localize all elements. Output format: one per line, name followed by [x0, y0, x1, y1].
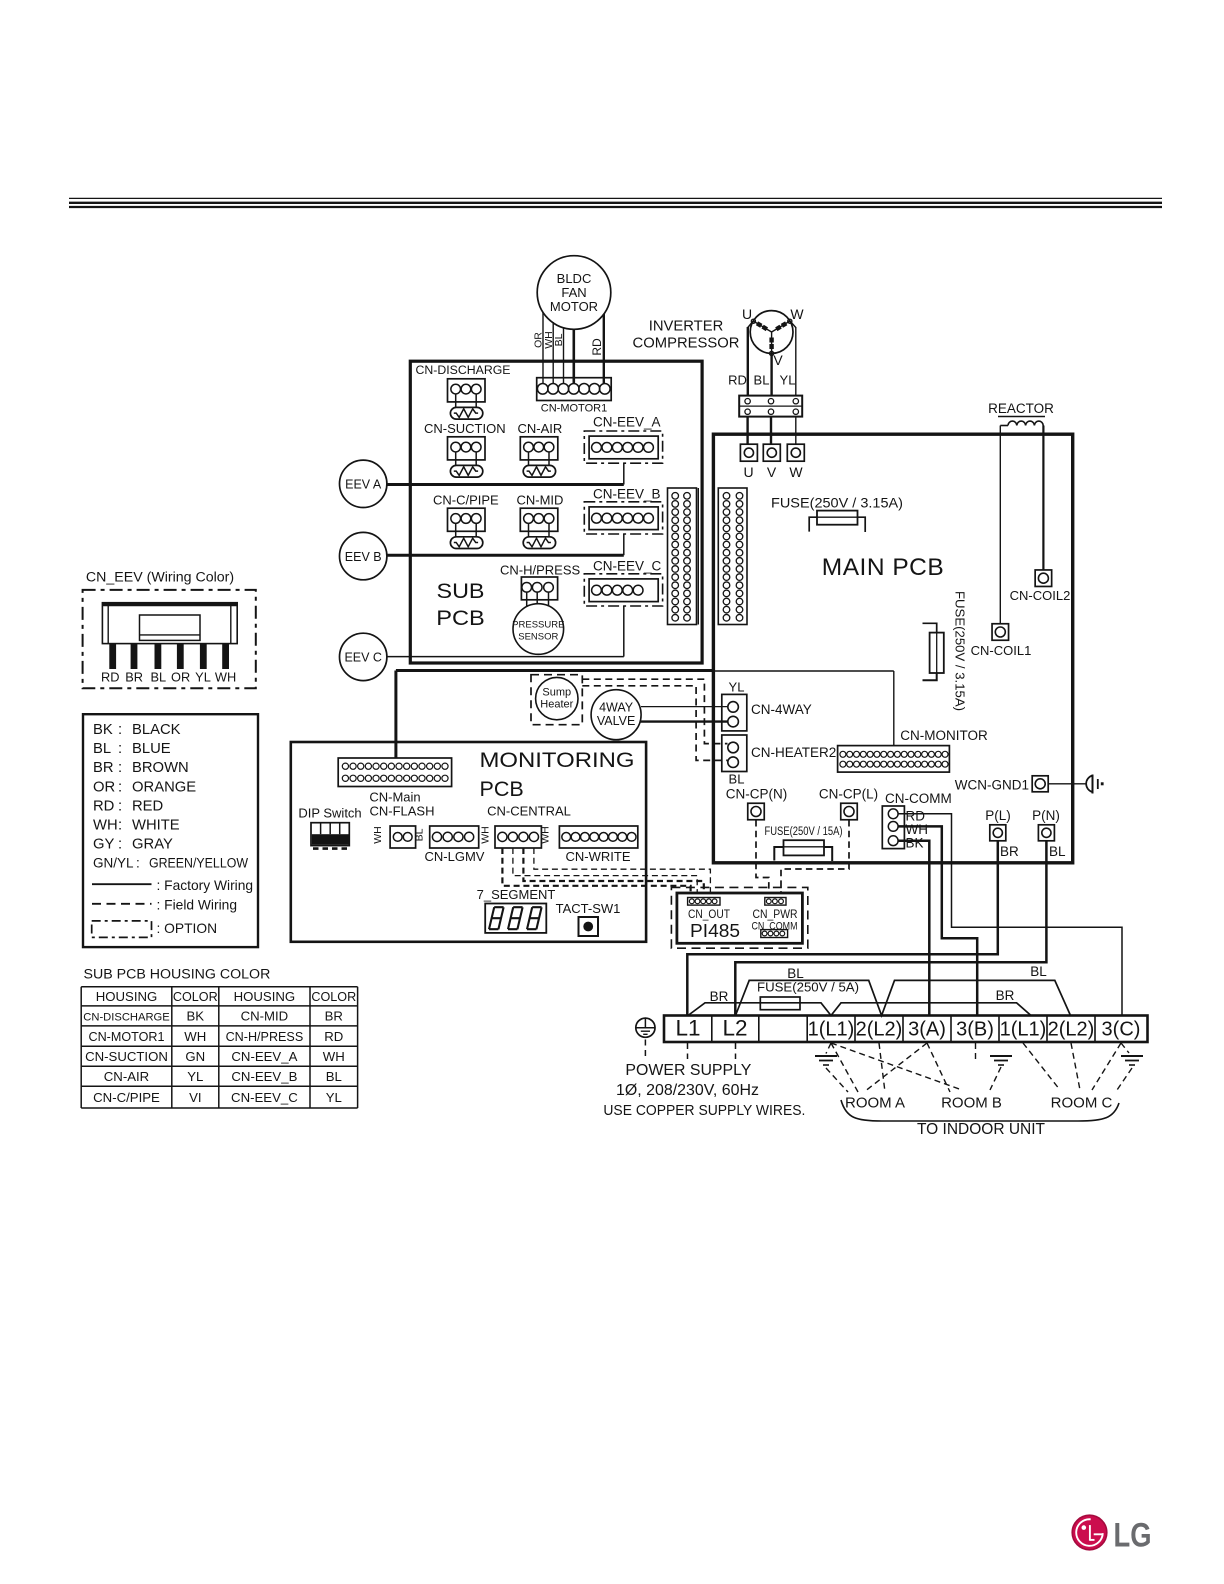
svg-text:ROOM A: ROOM A [845, 1095, 905, 1112]
compressor labels U W V [742, 306, 804, 368]
svg-text:CN-DISCHARGE: CN-DISCHARGE [416, 363, 511, 377]
svg-text:CN-LGMV: CN-LGMV [425, 849, 485, 864]
svg-text::: : [118, 818, 122, 834]
legend field wiring [92, 898, 237, 913]
svg-text:GN/YL: GN/YL [93, 856, 134, 871]
wire CN-COMM BK to terminal 3(A) [898, 841, 929, 1016]
svg-text:BK: BK [93, 722, 113, 738]
compressor wire V [770, 353, 772, 397]
label INVERTER COMPRESSOR [633, 319, 740, 352]
EEV A valve [340, 460, 387, 507]
svg-text:OR: OR [93, 779, 115, 795]
svg-text:MAIN PCB: MAIN PCB [822, 554, 944, 581]
svg-text:: Factory Wiring: : Factory Wiring [157, 878, 254, 893]
svg-text:HOUSING: HOUSING [234, 989, 296, 1004]
svg-text:RED: RED [132, 798, 163, 814]
terminal block strip [664, 1016, 1148, 1043]
svg-text:COLOR: COLOR [311, 990, 356, 1004]
svg-text:CN-H/PRESS: CN-H/PRESS [500, 563, 581, 578]
svg-text:HOUSING: HOUSING [96, 989, 158, 1004]
svg-text:3(C): 3(C) [1102, 1019, 1141, 1041]
svg-text:ROOM C: ROOM C [1051, 1095, 1113, 1112]
svg-text:L1: L1 [675, 1016, 700, 1041]
connector CN-4WAY [722, 680, 812, 731]
svg-text:TACT-SW1: TACT-SW1 [556, 901, 621, 916]
svg-text:COLOR: COLOR [173, 990, 218, 1004]
svg-text:CN-CENTRAL: CN-CENTRAL [487, 804, 571, 819]
svg-text:RD: RD [728, 373, 747, 388]
MAIN PCB board outline [713, 434, 1072, 863]
svg-text:CN-SUCTION: CN-SUCTION [85, 1049, 168, 1064]
svg-text:BK: BK [906, 836, 924, 851]
svg-text:CN-EEV_B: CN-EEV_B [231, 1069, 297, 1084]
svg-text:TO INDOOR UNIT: TO INDOOR UNIT [917, 1121, 1046, 1138]
svg-text:COMPRESSOR: COMPRESSOR [633, 336, 740, 352]
connector CN_PWR [753, 898, 798, 922]
motor wire RD [603, 314, 605, 384]
connector CN-MID with thermistor [517, 493, 564, 508]
header block SUB PCB side [668, 488, 699, 625]
chassis ground symbol [1086, 775, 1103, 794]
power supply earth symbol [636, 1018, 655, 1037]
terminal W [787, 444, 804, 480]
svg-text:POWER SUPPLY: POWER SUPPLY [625, 1062, 751, 1079]
svg-text:Heater: Heater [540, 699, 573, 711]
svg-text:ROOM B: ROOM B [941, 1095, 1002, 1112]
svg-text:CN-EEV_B: CN-EEV_B [593, 487, 661, 502]
svg-text:CN-Main: CN-Main [369, 790, 420, 805]
svg-text:MONITORING: MONITORING [480, 748, 635, 772]
wire EEV A [387, 483, 624, 486]
PI485 module [671, 887, 807, 948]
svg-text:GY: GY [93, 837, 115, 853]
svg-text:CN-MOTOR1: CN-MOTOR1 [541, 403, 607, 415]
svg-text:FUSE(250V / 3.15A): FUSE(250V / 3.15A) [953, 591, 968, 711]
connector CN-C/PIPE with thermistor [433, 493, 499, 508]
svg-text:GRAY: GRAY [132, 837, 173, 853]
motor wire BL [563, 327, 565, 384]
motor wire WH [552, 322, 554, 384]
terminal U [740, 444, 757, 480]
svg-text:2(L2): 2(L2) [1048, 1019, 1095, 1041]
label MONITORING PCB [480, 748, 635, 801]
connector CN-SUCTION with thermistor [424, 421, 506, 436]
dashed wire sump heater to CN-HEATER2 pin1 [582, 679, 727, 743]
wire WCN-GND1 to chassis ground [1048, 783, 1086, 785]
svg-text:INVERTER: INVERTER [649, 319, 724, 335]
svg-text:YL: YL [187, 1069, 203, 1084]
svg-text:W: W [790, 306, 804, 322]
wire reactor to CN-COIL1 [999, 426, 1001, 624]
compressor wire U [747, 327, 749, 397]
svg-text:CN-C/PIPE: CN-C/PIPE [433, 493, 499, 508]
svg-text:4WAY: 4WAY [599, 701, 634, 715]
svg-text:WH: WH [184, 1029, 206, 1044]
svg-text:WH: WH [93, 818, 118, 834]
svg-text:FUSE(250V / 3.15A): FUSE(250V / 3.15A) [771, 496, 903, 511]
4-way valve [591, 690, 641, 740]
svg-text:WHITE: WHITE [132, 818, 180, 834]
svg-text:WH: WH [323, 1049, 345, 1064]
svg-text:CN-MOTOR1: CN-MOTOR1 [88, 1030, 164, 1044]
connector CN-CENTRAL [479, 804, 571, 849]
labels ROOM A B C [845, 1095, 1113, 1112]
svg-text:3(A): 3(A) [908, 1019, 946, 1041]
connector CN-Main [338, 758, 451, 805]
svg-text:CN-AIR: CN-AIR [104, 1069, 149, 1084]
brace to indoor unit [841, 1100, 1119, 1121]
svg-text:CN-HEATER2: CN-HEATER2 [751, 745, 836, 760]
wire BL from L2 to 2(L2) terminals [736, 980, 1071, 1015]
header block MAIN PCB side [718, 488, 747, 625]
legend CN_EEV wiring color [83, 570, 256, 689]
svg-text:: Field Wiring: : Field Wiring [157, 898, 238, 913]
svg-text:P(L): P(L) [985, 808, 1011, 823]
SUB PCB board outline [410, 361, 702, 663]
terminal V [763, 444, 780, 480]
svg-text:1Ø, 208/230V, 60Hz: 1Ø, 208/230V, 60Hz [616, 1082, 759, 1099]
wire 4way valve to CN-4WAY pin2 [641, 720, 728, 722]
wire CN-COMM WH to terminal 3(B) [898, 826, 977, 1015]
svg-text:SENSOR: SENSOR [518, 632, 558, 643]
wire color labels RD BL YL [728, 373, 795, 388]
connector CN-MONITOR [838, 728, 988, 772]
svg-text:CN-C/PIPE: CN-C/PIPE [93, 1090, 160, 1105]
svg-text:CN-CP(N): CN-CP(N) [726, 787, 788, 802]
svg-text:BL: BL [326, 1069, 342, 1084]
sump heater [531, 675, 582, 725]
connector CN-MOTOR1 [537, 378, 612, 415]
connector CN-CP(L) [819, 787, 878, 820]
svg-text:P(N): P(N) [1032, 808, 1060, 823]
connector CN-EEV_B [593, 487, 661, 502]
svg-text:BLDC: BLDC [557, 271, 592, 286]
svg-text::: : [118, 722, 122, 738]
svg-text:GN: GN [185, 1049, 205, 1064]
terminal labels [675, 1016, 1140, 1041]
tact switch TACT-SW1 [556, 901, 621, 936]
CN-COMM pin labels [906, 809, 929, 851]
svg-text:BLUE: BLUE [132, 741, 171, 757]
fuse F4 250V/5A [757, 980, 859, 1010]
EEV C valve [340, 633, 387, 680]
svg-text:YL: YL [326, 1090, 342, 1105]
wire P(L) BR to terminal L1 [687, 841, 998, 1016]
svg-text:CN_OUT: CN_OUT [688, 907, 731, 921]
svg-text:BL: BL [150, 670, 166, 685]
svg-text:BR: BR [996, 988, 1015, 1003]
earth terminal B [990, 1056, 1012, 1065]
svg-text:Sump: Sump [542, 687, 571, 699]
svg-text:CN-EEV_C: CN-EEV_C [231, 1090, 298, 1105]
wire CN-EEV_B to EEV B line [623, 534, 625, 555]
svg-text:CN-AIR: CN-AIR [518, 421, 563, 436]
connector CN-EEV_A [593, 415, 661, 430]
svg-text:PI485: PI485 [690, 920, 740, 941]
svg-text:BL: BL [553, 333, 565, 346]
motor wire OR [542, 313, 544, 385]
compressor terminal block [739, 396, 802, 417]
reactor L1 coil [988, 401, 1054, 426]
connector CN-DISCHARGE with thermistor [416, 363, 511, 377]
wires block to UVW terminals [748, 417, 796, 445]
svg-text:BR: BR [325, 1009, 343, 1024]
svg-text:YL: YL [729, 680, 745, 695]
svg-text:RD: RD [93, 798, 114, 814]
svg-text:WH: WH [479, 826, 491, 844]
label SUB PCB [436, 580, 485, 630]
svg-text:BL: BL [93, 741, 111, 757]
svg-text:CN_PWR: CN_PWR [753, 907, 798, 921]
label POWER SUPPLY [603, 1062, 805, 1119]
fuse F2 250V/3.15A vertical [923, 591, 968, 711]
svg-text:WH: WH [215, 670, 236, 685]
svg-text:CN_EEV (Wiring Color): CN_EEV (Wiring Color) [86, 570, 234, 586]
wire EEV C [387, 656, 624, 658]
connector CN-AIR with thermistor [518, 421, 563, 436]
wire 4way valve to CN-4WAY pin1 [641, 706, 728, 708]
svg-text:1(L1): 1(L1) [808, 1019, 855, 1041]
svg-text:WH: WH [539, 826, 551, 844]
svg-text:OR: OR [171, 670, 190, 685]
svg-text:PCB: PCB [436, 607, 485, 630]
svg-text:BL: BL [1049, 844, 1066, 859]
wire CN-COMM RD to terminal 3(C) [898, 814, 1122, 1016]
svg-text:YL: YL [780, 373, 796, 388]
svg-text:VI: VI [189, 1090, 201, 1105]
DIP switch [298, 806, 361, 849]
svg-text:7_SEGMENT: 7_SEGMENT [477, 887, 556, 902]
connector WCN-GND1 [955, 776, 1048, 793]
svg-text:PCB: PCB [480, 777, 524, 801]
motor wire labels [533, 331, 604, 355]
svg-text:: OPTION: : OPTION [157, 921, 218, 936]
wire EEV B [387, 554, 624, 557]
svg-text:WCN-GND1: WCN-GND1 [955, 778, 1029, 793]
svg-text:BL: BL [754, 373, 770, 388]
svg-text:BL: BL [729, 772, 745, 787]
top rule lines [69, 198, 1162, 207]
MONITORING PCB board outline [291, 742, 646, 942]
svg-text:L2: L2 [722, 1016, 747, 1041]
wire SUB area to MAIN PCB horizontal [396, 669, 714, 672]
connector CN-H/PRESS [500, 563, 581, 607]
svg-text:BL: BL [414, 828, 426, 841]
svg-text:CN-MONITOR: CN-MONITOR [900, 728, 988, 743]
svg-text:WH: WH [372, 826, 384, 844]
svg-text:CN-COIL2: CN-COIL2 [1010, 588, 1071, 603]
connector CN_OUT [688, 898, 731, 922]
svg-text:LG: LG [1114, 1517, 1152, 1555]
svg-text:BR: BR [125, 670, 143, 685]
legend wire color codes [83, 714, 258, 947]
connector CN-LGMV [414, 826, 485, 864]
svg-text:YL: YL [195, 670, 211, 685]
svg-text:PRESSURE: PRESSURE [512, 620, 564, 631]
terminal P(L) [985, 808, 1011, 841]
svg-text::: : [118, 741, 122, 757]
svg-text:CN-EEV_C: CN-EEV_C [593, 559, 662, 574]
svg-text:W: W [789, 464, 803, 480]
connector CN-WRITE [539, 826, 638, 864]
connector CN-COMM [882, 791, 951, 849]
svg-text:CN-WRITE: CN-WRITE [566, 849, 631, 864]
svg-text:DIP Switch: DIP Switch [298, 806, 361, 821]
dashed stubs below L1 L2 and earth [645, 1040, 735, 1060]
connector CN-COIL1 [971, 624, 1032, 658]
wire reactor to CN-COIL2 [1042, 426, 1044, 570]
svg-text:CN-COMM: CN-COMM [885, 791, 952, 806]
svg-text:SUB PCB HOUSING COLOR: SUB PCB HOUSING COLOR [84, 967, 271, 983]
table SUB PCB housing color [81, 967, 357, 1109]
svg-text:FUSE(250V / 15A): FUSE(250V / 15A) [765, 824, 843, 838]
svg-text:EEV A: EEV A [345, 478, 382, 492]
svg-text:U: U [742, 306, 752, 322]
svg-text:CN-MID: CN-MID [241, 1009, 289, 1024]
dashed wire CN-CP(N) to PI485 CN_PWR [756, 820, 769, 901]
wire BR from L1 with fuse to 1(L1) terminals [688, 1003, 1031, 1016]
terminal P(N) [1032, 808, 1060, 841]
connector CN-COIL2 [1010, 570, 1071, 603]
svg-text:CN-FLASH: CN-FLASH [369, 804, 434, 819]
inverter compressor motor symbol [748, 311, 796, 356]
svg-text:RD: RD [101, 670, 119, 685]
svg-text::: : [118, 798, 122, 814]
wire CN-EEV_C to EEV C line [623, 606, 625, 657]
svg-text:V: V [767, 464, 777, 480]
svg-text:GREEN/YELLOW: GREEN/YELLOW [149, 856, 248, 871]
svg-text:MOTOR: MOTOR [550, 299, 598, 314]
svg-text:U: U [743, 464, 753, 480]
fuse F3 250V/15A [765, 824, 843, 861]
connector CN-FLASH [369, 804, 434, 849]
svg-text:EEV B: EEV B [345, 550, 382, 564]
svg-text:CN-4WAY: CN-4WAY [751, 702, 812, 717]
svg-text:CN-EEV_A: CN-EEV_A [593, 415, 661, 430]
svg-text:REACTOR: REACTOR [988, 401, 1054, 416]
dashed wire sump heater to CN-HEATER2 pin2 [582, 686, 727, 761]
svg-text:BROWN: BROWN [132, 760, 189, 776]
legend option [92, 921, 217, 938]
dashed wires CN-CENTRAL to PI485 CN_OUT [502, 848, 710, 901]
svg-text:BLACK: BLACK [132, 722, 181, 738]
svg-text::: : [118, 779, 122, 795]
svg-text:CN-SUCTION: CN-SUCTION [424, 421, 506, 436]
connector CN-HEATER2 [722, 735, 836, 787]
svg-text:CN-DISCHARGE: CN-DISCHARGE [83, 1012, 169, 1024]
svg-text:CN-EEV_A: CN-EEV_A [231, 1049, 297, 1064]
wire down to CN-Main [394, 671, 397, 759]
connector CN-EEV_C [593, 559, 662, 574]
svg-text:ORANGE: ORANGE [132, 779, 196, 795]
svg-text:RD: RD [324, 1029, 343, 1044]
svg-text:CN-H/PRESS: CN-H/PRESS [226, 1030, 304, 1044]
compressor wire W [795, 327, 797, 397]
wire MAIN PCB to CN-MONITOR [715, 671, 894, 746]
earth terminal C [1121, 1056, 1143, 1065]
svg-text:VALVE: VALVE [597, 714, 635, 728]
svg-text:SUB: SUB [437, 580, 485, 603]
EEV B valve [340, 532, 387, 579]
svg-text:EEV C: EEV C [344, 651, 382, 665]
svg-text:CN-CP(L): CN-CP(L) [819, 787, 878, 802]
motor wire 4 [572, 329, 575, 384]
svg-text:CN-COIL1: CN-COIL1 [971, 643, 1032, 658]
svg-text:BR: BR [1000, 844, 1019, 859]
fuse F1 250V/3.15A [771, 496, 903, 533]
pressure sensor [512, 604, 564, 655]
svg-text:BK: BK [187, 1009, 205, 1024]
svg-text:FAN: FAN [561, 285, 586, 300]
svg-text:BL: BL [1030, 964, 1047, 979]
svg-text:2(L2): 2(L2) [856, 1019, 903, 1041]
legend factory wiring [92, 878, 253, 893]
7 segment display [477, 887, 556, 933]
connector CN_COMM [752, 921, 798, 938]
svg-text::: : [118, 760, 122, 776]
svg-text:1(L1): 1(L1) [1000, 1019, 1047, 1041]
svg-text::: : [118, 837, 122, 853]
svg-text:RD: RD [590, 338, 604, 356]
svg-text:BR: BR [710, 989, 729, 1004]
earth terminal A [815, 1056, 837, 1065]
dashed wire CN-CP(L) to PI485 CN_PWR [781, 820, 849, 901]
svg-text:3(B): 3(B) [956, 1019, 994, 1041]
connector CN-CP(N) [726, 787, 788, 820]
svg-text:FUSE(250V / 5A): FUSE(250V / 5A) [757, 980, 859, 995]
7 segment digits [489, 907, 542, 929]
dashed room wiring fan [826, 1043, 1132, 1092]
LG logo emblem [1072, 1515, 1107, 1550]
svg-text:USE COPPER SUPPLY WIRES.: USE COPPER SUPPLY WIRES. [603, 1102, 805, 1119]
wire P(N) BL to terminal L2 [735, 841, 1046, 1016]
svg-text::: : [136, 856, 140, 871]
wire CN-EEV_A to EEV A line [623, 463, 625, 484]
svg-text:CN-MID: CN-MID [517, 493, 564, 508]
svg-text:V: V [773, 352, 783, 368]
BLDC fan motor [537, 256, 611, 330]
svg-text:BL: BL [787, 966, 804, 981]
svg-text:BR: BR [93, 760, 114, 776]
